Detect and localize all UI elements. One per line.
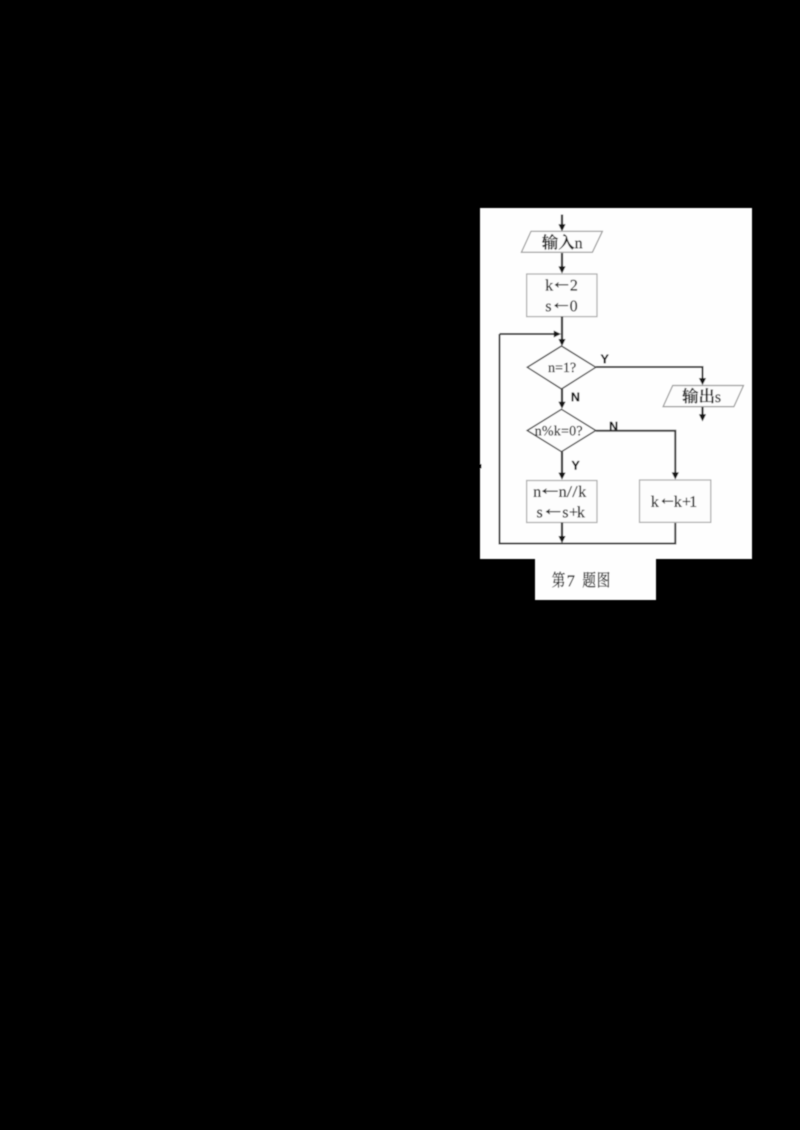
edge notch artifact <box>480 464 482 469</box>
caption text: 题图 <box>583 572 610 588</box>
text k<-k+1 <box>651 496 696 507</box>
parallelogram: input n <box>521 231 602 252</box>
text n%k=0? <box>535 426 582 436</box>
wire: update box to loop line <box>558 523 565 544</box>
wire: N branch to k=k+1 box <box>596 431 676 474</box>
decision diamond 2: n%k=0? <box>527 409 596 451</box>
loop wire: right, bottom and left <box>500 334 676 544</box>
wire: init box to diamond 1 <box>558 317 565 347</box>
label Y (diamond 1) <box>601 355 609 364</box>
text k<-2 <box>545 279 577 290</box>
process box: k=2 s=0 <box>527 274 597 317</box>
wire: Y branch to output <box>596 367 703 380</box>
wire: diamond 1 to diamond 2 <box>558 389 565 409</box>
parallelogram: output s <box>663 386 743 407</box>
text s<-0 <box>546 301 577 312</box>
text n<-n//k <box>534 486 587 497</box>
decision diamond 1: n=1? <box>527 346 596 389</box>
arrowhead into output <box>699 378 706 385</box>
caption text: 7 <box>568 575 575 586</box>
text 输入 <box>542 234 574 250</box>
caption text: 第 <box>552 572 565 588</box>
text 输出 <box>682 388 714 404</box>
label N (diamond 1) <box>572 393 579 402</box>
text n (input) <box>575 241 582 249</box>
wire: diamond 2 to update box <box>558 452 565 480</box>
label Y (diamond 2) <box>572 461 580 470</box>
process box: k=k+1 <box>640 480 711 522</box>
top entry arrow <box>558 215 565 232</box>
white flowchart panel <box>480 208 752 559</box>
process box: n=n//k s=s+k <box>527 481 597 523</box>
exit arrow below output <box>699 407 706 422</box>
label N (diamond 2) <box>610 422 617 431</box>
caption panel <box>535 559 656 600</box>
arrowhead into k=k+1 box <box>672 472 679 479</box>
text s<-s+k <box>537 506 585 517</box>
text n=1? <box>548 363 575 372</box>
text s (output) <box>715 394 720 402</box>
loop merge arrow <box>500 331 562 338</box>
wire: input to init box <box>558 253 565 274</box>
